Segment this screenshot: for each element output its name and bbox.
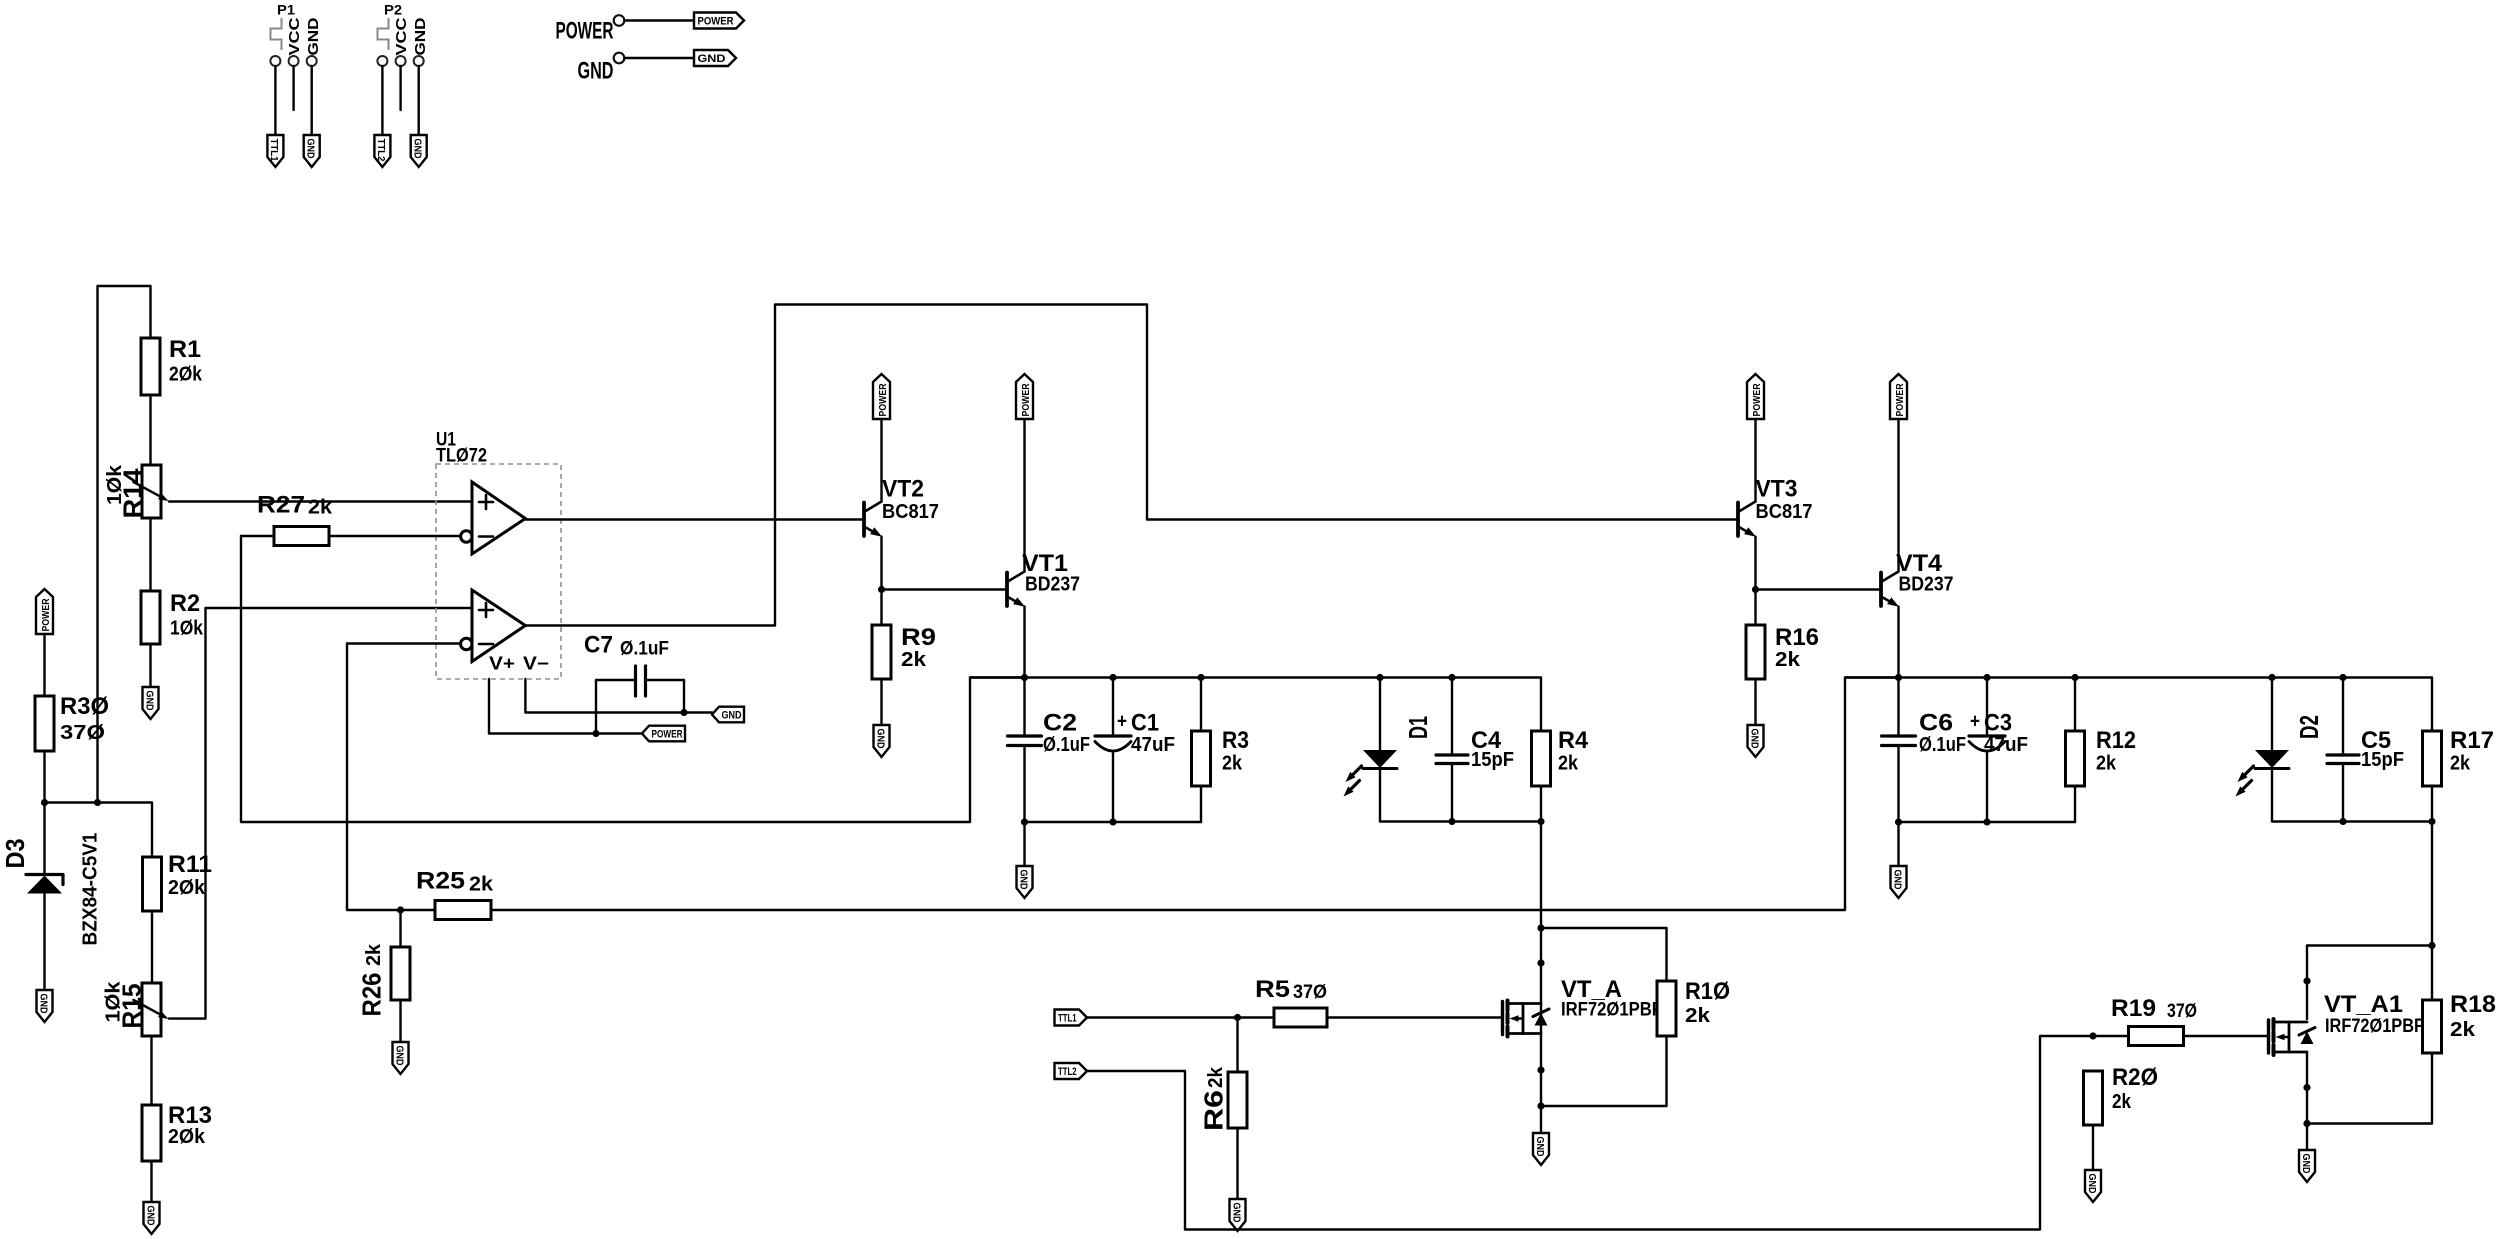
svg-text:2k: 2k [2096,753,2117,775]
svg-text:2k: 2k [1222,753,1243,775]
svg-text:2k: 2k [1205,1066,1227,1088]
svg-text:GND: GND [305,17,322,55]
svg-text:BC817: BC817 [1756,501,1813,523]
svg-text:15pF: 15pF [2361,749,2404,771]
svg-text:Ø.1uF: Ø.1uF [1043,734,1090,756]
svg-text:15pF: 15pF [1471,749,1514,771]
svg-text:VT2: VT2 [882,476,924,503]
svg-text:R17: R17 [2450,727,2494,754]
svg-text:37Ø: 37Ø [60,722,105,744]
svg-text:POWER: POWER [1751,383,1763,416]
svg-text:+: + [1970,711,1980,733]
svg-text:POWER: POWER [1894,383,1906,416]
svg-text:VCC: VCC [393,17,410,55]
svg-text:2k: 2k [2112,1091,2132,1113]
svg-text:2Øk: 2Øk [169,364,203,386]
svg-text:C6: C6 [1919,710,1953,737]
svg-text:D2: D2 [2294,715,2324,739]
svg-text:GND: GND [412,139,424,159]
svg-text:GND: GND [412,17,429,55]
svg-text:GND: GND [143,691,155,711]
svg-text:V−: V− [523,654,549,674]
svg-text:C1: C1 [1131,710,1159,737]
svg-text:1Øk: 1Øk [103,981,125,1023]
svg-text:GND: GND [698,53,726,65]
svg-text:GND: GND [1017,870,1029,890]
svg-text:BC817: BC817 [882,501,939,523]
svg-text:POWER: POWER [40,598,52,631]
svg-text:IRF72Ø1PBF: IRF72Ø1PBF [2325,1016,2424,1037]
svg-text:R27: R27 [257,492,305,519]
svg-text:47uF: 47uF [1984,734,2028,756]
svg-text:GND: GND [1534,1137,1546,1157]
svg-text:C3: C3 [1984,710,2012,737]
svg-text:BZX84-C5V1: BZX84-C5V1 [80,833,102,946]
svg-text:R13: R13 [168,1102,212,1129]
svg-text:2k: 2k [363,943,385,966]
svg-text:47uF: 47uF [1131,734,1175,756]
svg-text:GND: GND [722,710,742,722]
svg-text:C2: C2 [1043,710,1077,737]
svg-text:GND: GND [1891,870,1903,890]
svg-text:+: + [1117,711,1127,733]
svg-text:GND: GND [578,58,614,85]
svg-text:TLØ72: TLØ72 [436,446,487,467]
svg-text:37Ø: 37Ø [1293,982,1327,1003]
svg-text:2k: 2k [901,649,927,671]
svg-text:R26: R26 [357,973,387,1017]
svg-text:Ø.1uF: Ø.1uF [1919,734,1966,756]
svg-text:2k: 2k [308,497,333,519]
svg-text:GND: GND [393,1046,405,1066]
svg-text:VT_A1: VT_A1 [2324,991,2403,1018]
svg-text:P1: P1 [277,2,295,18]
svg-text:R3Ø: R3Ø [60,693,109,720]
svg-text:POWER: POWER [877,383,889,416]
svg-text:P2: P2 [384,2,402,18]
svg-text:D3: D3 [0,839,30,869]
svg-text:POWER: POWER [1020,383,1032,416]
svg-text:BD237: BD237 [1025,574,1080,596]
svg-text:37Ø: 37Ø [2167,1001,2197,1022]
svg-text:2Øk: 2Øk [168,877,206,899]
svg-text:R5: R5 [1255,976,1290,1003]
svg-text:GND: GND [1230,1203,1242,1223]
svg-text:C7: C7 [584,632,613,659]
svg-text:POWER: POWER [652,729,683,741]
svg-text:1Øk: 1Øk [104,464,126,505]
svg-text:R2Ø: R2Ø [2112,1064,2158,1091]
svg-text:R6: R6 [1199,1090,1229,1131]
svg-text:TTL2: TTL2 [375,139,387,162]
svg-text:BD237: BD237 [1899,574,1954,596]
svg-text:2k: 2k [1775,649,1801,671]
svg-text:R1: R1 [169,336,201,363]
svg-text:GND: GND [2300,1154,2312,1174]
svg-text:2k: 2k [2450,1019,2476,1041]
svg-text:TTL1: TTL1 [1058,1013,1077,1025]
svg-text:D1: D1 [1403,716,1433,739]
svg-text:R12: R12 [2096,727,2136,754]
svg-text:R25: R25 [416,868,465,895]
svg-text:R19: R19 [2111,995,2156,1022]
svg-text:R16: R16 [1775,624,1819,651]
svg-text:GND: GND [1748,729,1760,749]
svg-text:TTL1: TTL1 [268,139,280,162]
svg-text:V+: V+ [489,654,515,674]
svg-text:2k: 2k [1685,1005,1711,1027]
svg-text:R3: R3 [1222,727,1249,754]
svg-text:R18: R18 [2450,991,2496,1018]
svg-text:GND: GND [2086,1174,2098,1194]
svg-text:R1Ø: R1Ø [1685,978,1730,1005]
svg-text:R2: R2 [170,590,200,617]
svg-text:GND: GND [37,994,49,1014]
svg-text:GND: GND [144,1206,156,1226]
svg-text:TTL2: TTL2 [1058,1066,1077,1078]
svg-text:2k: 2k [469,874,494,896]
svg-text:2Øk: 2Øk [168,1126,206,1148]
svg-text:R9: R9 [901,624,936,651]
svg-text:VT3: VT3 [1756,476,1798,503]
svg-text:IRF72Ø1PBF: IRF72Ø1PBF [1561,1000,1662,1021]
svg-text:2k: 2k [1558,753,1579,775]
svg-text:POWER: POWER [698,16,734,28]
svg-text:R4: R4 [1558,727,1589,754]
svg-text:GND: GND [305,139,317,159]
svg-text:1Øk: 1Øk [170,618,204,640]
svg-text:Ø.1uF: Ø.1uF [620,639,669,660]
svg-text:VCC: VCC [286,17,303,55]
svg-text:GND: GND [874,729,886,749]
svg-text:POWER: POWER [556,18,614,45]
svg-text:2k: 2k [2450,753,2471,775]
